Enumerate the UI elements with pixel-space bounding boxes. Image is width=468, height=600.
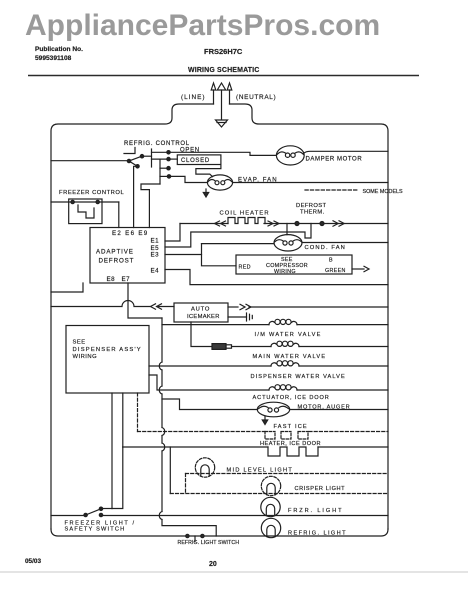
- wire auger to right bus: [290, 409, 388, 411]
- svg-text:COND. FAN: COND. FAN: [305, 245, 346, 251]
- bus hop over dispenser valve row: [159, 362, 162, 370]
- svg-text:DEFROST: DEFROST: [99, 258, 135, 265]
- left bus vertical from E7: [128, 283, 162, 318]
- svg-text:COIL HEATER: COIL HEATER: [220, 211, 270, 217]
- svg-text:DAMPER MOTOR: DAMPER MOTOR: [306, 157, 363, 163]
- svg-text:AUTO: AUTO: [191, 307, 210, 313]
- bus hop over heater row: [162, 443, 165, 451]
- svg-text:DISPENSER ASS'Y: DISPENSER ASS'Y: [73, 347, 142, 353]
- svg-text:AppliancePartsPros.com: AppliancePartsPros.com: [25, 9, 380, 42]
- svg-text:E1: E1: [151, 238, 160, 245]
- damper motor: [276, 146, 304, 165]
- coil heater element: [228, 218, 265, 224]
- svg-text:ACTUATOR, ICE DOOR: ACTUATOR, ICE DOOR: [253, 395, 330, 401]
- wire dispenser box drop to freezer switch: [111, 393, 113, 509]
- wire E1 to coil heater: [165, 224, 180, 242]
- svg-text:E8: E8: [107, 276, 116, 283]
- header rule: [28, 75, 419, 77]
- dashed mid-to-crisper link: [185, 474, 187, 494]
- svg-text:FRZR. LIGHT: FRZR. LIGHT: [288, 508, 343, 514]
- svg-text:SEE: SEE: [73, 340, 86, 346]
- wire freezer control feed: [51, 201, 119, 203]
- i/m valve coil: [269, 321, 275, 324]
- wire icemaker bottom to main valve row: [191, 322, 212, 347]
- svg-text:E2 E6 E9: E2 E6 E9: [112, 230, 149, 237]
- svg-text:(NEUTRAL): (NEUTRAL): [236, 94, 276, 101]
- svg-text:B: B: [329, 258, 333, 264]
- svg-text:5995391108: 5995391108: [35, 55, 72, 62]
- auger ground arrow: [264, 417, 266, 421]
- freezer switch blade: [86, 509, 101, 515]
- svg-text:REFRIG. LIGHT SWITCH: REFRIG. LIGHT SWITCH: [178, 540, 240, 546]
- freezer switch top contact to dispenser drop: [101, 508, 112, 510]
- bus hop over freezer light row: [159, 512, 162, 520]
- green arrow out: [352, 268, 364, 270]
- wire cond fan drop from therm line: [286, 224, 288, 235]
- wire E6 riser: [134, 166, 138, 227]
- icemaker ground stub: [228, 316, 247, 318]
- footer faint rule: [0, 571, 468, 573]
- dashed some-models wire: [305, 189, 359, 191]
- svg-text:MOTOR, AUGER: MOTOR, AUGER: [298, 405, 351, 411]
- refrig light switch dots on border: [186, 534, 189, 537]
- svg-text:CRISPER LIGHT: CRISPER LIGHT: [295, 486, 346, 492]
- refrig control switch cluster: [127, 159, 130, 162]
- wire closed to evap top: [196, 165, 221, 177]
- svg-text:20: 20: [209, 561, 217, 568]
- line prong: [213, 90, 215, 104]
- bus hop over actuator row: [159, 386, 162, 394]
- motor auger: [257, 402, 289, 417]
- actuator coil: [269, 387, 275, 390]
- wire drop continues to freezer switch junction: [112, 447, 123, 509]
- freezer control thermostat zigzag: [78, 205, 94, 218]
- svg-text:ADAPTIVE: ADAPTIVE: [96, 249, 134, 256]
- wire auger row tap: [162, 399, 257, 410]
- heater ice door resistor: [268, 447, 318, 456]
- wire E4 row: [165, 270, 388, 285]
- evap fan ground arrow: [205, 189, 207, 193]
- wire E8 to left bus: [51, 283, 83, 292]
- cond fan: [274, 235, 302, 251]
- wire cond fan to right bus: [302, 242, 388, 244]
- mid level lamp: [195, 458, 214, 477]
- freezer light row to lamp and bus: [101, 515, 388, 517]
- wire E2 riser: [118, 202, 120, 228]
- svg-text:Publication No.: Publication No.: [35, 46, 83, 53]
- svg-text:CLOSED: CLOSED: [181, 158, 210, 164]
- dispenser valve coil: [271, 363, 277, 366]
- wire refrig control feed: [51, 160, 129, 162]
- wire evap fan to right bus: [233, 182, 388, 184]
- svg-text:SAFETY SWITCH: SAFETY SWITCH: [65, 527, 126, 533]
- defrost therm junction dots: [295, 222, 299, 226]
- auto icemaker box: [174, 303, 228, 322]
- fast ice resistor dashed: [265, 432, 308, 440]
- main valve plug symbol: [212, 344, 226, 350]
- svg-text:GREEN: GREEN: [325, 268, 346, 274]
- wire lower contact to evap fan: [169, 176, 208, 182]
- coil heater wire left: [180, 223, 228, 225]
- dashed mid level row: [186, 473, 389, 475]
- wire E3 to cond fan loop: [165, 254, 202, 256]
- wire icemaker to right bus with chevrons: [228, 306, 238, 308]
- coil heater right chevrons: [268, 221, 273, 226]
- svg-text:FAST ICE: FAST ICE: [274, 424, 308, 430]
- evap fan: [207, 175, 232, 190]
- svg-text:REFRIG. LIGHT: REFRIG. LIGHT: [288, 531, 347, 537]
- svg-text:WIRING: WIRING: [73, 354, 98, 360]
- svg-text:E3: E3: [151, 252, 160, 259]
- neutral prong: [229, 90, 231, 104]
- bus hop over fast ice row: [162, 428, 165, 436]
- svg-text:WIRING: WIRING: [274, 269, 296, 275]
- svg-text:MAIN WATER VALVE: MAIN WATER VALVE: [253, 354, 327, 360]
- wire coil heater to therm: [264, 223, 388, 225]
- main border bottom: [51, 529, 388, 536]
- svg-text:WIRING SCHEMATIC: WIRING SCHEMATIC: [188, 67, 260, 74]
- svg-text:DISPENSER WATER VALVE: DISPENSER WATER VALVE: [251, 374, 346, 380]
- crisper lamp: [261, 476, 280, 495]
- main border top-right from plug: [230, 104, 389, 529]
- wire icemaker feed with hop: [51, 301, 150, 307]
- svg-text:ICEMAKER: ICEMAKER: [187, 314, 220, 320]
- svg-text:THERM.: THERM.: [300, 210, 325, 216]
- svg-text:E7: E7: [122, 276, 131, 283]
- closed contact box: [169, 158, 178, 160]
- wire dispenser valve row: [149, 365, 271, 367]
- main border left+top-left with rise to plug: [51, 104, 214, 529]
- main mid bus x=162: [162, 318, 216, 536]
- refrig lamp on bottom border: [261, 518, 280, 537]
- frzr lamp: [261, 497, 280, 516]
- wire dispenser box drop to heater row: [122, 393, 124, 447]
- wire open contact to damper: [169, 152, 277, 155]
- svg-text:E4: E4: [151, 268, 160, 275]
- svg-text:OPEN: OPEN: [180, 148, 200, 154]
- freezer control box: [69, 199, 102, 224]
- svg-text:SOME MODELS: SOME MODELS: [363, 189, 404, 195]
- crisper feed vertical: [169, 447, 171, 494]
- svg-text:RED: RED: [239, 265, 251, 271]
- icemaker feed chevrons: [151, 304, 156, 309]
- dashed fast ice row: [138, 431, 389, 433]
- dispenser assy box: [66, 326, 149, 394]
- dashed crisper row: [170, 493, 388, 495]
- wire i/m water valve row: [162, 324, 269, 326]
- wire actuator row from dispenser box: [149, 375, 269, 390]
- svg-text:I/M WATER VALVE: I/M WATER VALVE: [255, 332, 322, 338]
- coil heater left chevrons: [215, 221, 220, 226]
- svg-text:05/03: 05/03: [25, 558, 41, 565]
- main valve coil: [271, 343, 277, 346]
- heater ice door row: [123, 446, 388, 448]
- freezer light row: [51, 515, 86, 517]
- compressor box: [236, 255, 352, 274]
- svg-text:EVAP. FAN: EVAP. FAN: [238, 178, 278, 184]
- cond fan loop: [202, 244, 237, 266]
- svg-text:DEFROST: DEFROST: [296, 203, 327, 209]
- svg-text:HEATER, ICE DOOR: HEATER, ICE DOOR: [260, 441, 321, 447]
- ground symbol: [216, 120, 228, 127]
- wire damper to right bus: [304, 151, 389, 153]
- therm right chevron: [333, 221, 338, 226]
- ground prong: [221, 90, 223, 119]
- svg-text:FREEZER CONTROL: FREEZER CONTROL: [59, 190, 124, 196]
- svg-text:REFRIG. CONTROL: REFRIG. CONTROL: [124, 141, 190, 147]
- wire E5 staircase to therm: [165, 224, 311, 248]
- svg-text:MID LEVEL LIGHT: MID LEVEL LIGHT: [227, 468, 294, 474]
- adaptive defrost box: [90, 228, 165, 284]
- dashed drop to fast ice row: [137, 393, 139, 432]
- svg-text:FRS26H7C: FRS26H7C: [204, 47, 243, 56]
- wire E9 drop from switch: [141, 184, 160, 228]
- svg-text:(LINE): (LINE): [181, 94, 205, 101]
